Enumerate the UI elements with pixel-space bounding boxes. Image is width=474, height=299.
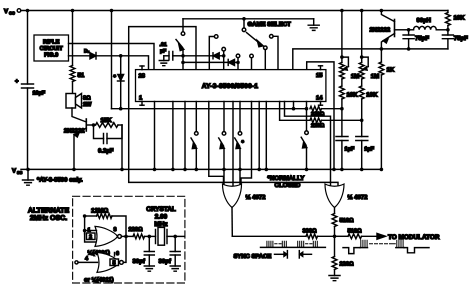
svg-text:14: 14 xyxy=(316,96,323,102)
wire funnel input 2 xyxy=(232,102,234,188)
wire emitter bottom xyxy=(381,48,448,50)
wire 15K node to Vss xyxy=(120,125,124,171)
svg-text:8Ω: 8Ω xyxy=(83,96,91,102)
switch SW-D xyxy=(301,102,308,172)
potentiometer 1M B xyxy=(359,11,379,81)
junction row1 pin xyxy=(222,54,226,70)
capacitor 75pF left xyxy=(403,30,429,51)
svg-text:510Ω: 510Ω xyxy=(340,218,354,224)
junction game select xyxy=(242,17,246,21)
svg-text:15K: 15K xyxy=(101,117,113,124)
wire funnel input 3 xyxy=(223,169,225,186)
text GAME SELECT xyxy=(248,21,292,28)
wire Vcc rail xyxy=(21,10,448,12)
pin 1 lead xyxy=(140,102,144,106)
wire 1M-A column xyxy=(340,99,344,137)
crystal Y1 xyxy=(149,227,177,245)
svg-text:FIG.9: FIG.9 xyxy=(44,53,58,59)
svg-text:*NORMALLY: *NORMALLY xyxy=(268,175,306,182)
svg-text:SYNC SPACE: SYNC SPACE xyxy=(234,253,272,260)
text or quarter 4011 xyxy=(84,277,114,284)
switch contact mid xyxy=(209,35,218,70)
svg-text:12MΩ: 12MΩ xyxy=(91,208,108,215)
svg-text:220Ω: 220Ω xyxy=(311,112,325,118)
svg-text:CLOSED: CLOSED xyxy=(275,182,301,189)
junction bus-switch xyxy=(305,107,309,111)
svg-text:28: 28 xyxy=(139,73,146,80)
node VSS label xyxy=(12,168,23,176)
resistor 220-1 xyxy=(310,106,342,117)
wire crystal out xyxy=(175,235,184,237)
switch contact row1 xyxy=(222,47,226,55)
wire rifle top output xyxy=(69,44,155,70)
svg-text:V: V xyxy=(4,8,8,15)
dimension arrows sync space xyxy=(275,251,312,258)
svg-text:D₁: D₁ xyxy=(84,49,90,55)
svg-text:TO MODULATOR: TO MODULATOR xyxy=(388,234,440,241)
svg-text:510Ω: 510Ω xyxy=(348,228,362,234)
svg-text:*AY-3-8500 only.: *AY-3-8500 only. xyxy=(37,176,83,183)
wire Q2 emitter to chip xyxy=(293,49,382,70)
IC U1 AY-3-8500 xyxy=(136,70,326,102)
svg-text:1K: 1K xyxy=(387,67,395,74)
diode row2 xyxy=(183,59,238,65)
resistor 10K B xyxy=(359,79,378,99)
wire pin to bus xyxy=(292,102,296,111)
ground game select xyxy=(308,19,319,31)
svg-text:or ¼(4011): or ¼(4011) xyxy=(84,277,114,284)
pin 14 lead xyxy=(319,102,323,106)
gate U3a 4001 NOR xyxy=(87,226,122,246)
block dashed alternate osc xyxy=(73,196,185,283)
diode D1 xyxy=(69,49,121,60)
svg-text:1M: 1M xyxy=(351,73,359,80)
diode row1 xyxy=(183,53,224,59)
ground sync xyxy=(329,276,340,281)
resistor 51 xyxy=(70,11,85,82)
text ALTERNATE 2MHz OSC xyxy=(28,207,70,222)
speaker 8ohm 2W xyxy=(66,82,92,109)
resistor 220 to ground xyxy=(332,236,354,275)
pin 15 lead xyxy=(319,66,323,70)
junction sync sum xyxy=(333,235,337,239)
wire OR1 output xyxy=(231,208,233,237)
svg-text:CRYSTAL: CRYSTAL xyxy=(146,206,176,213)
capacitor 10uF xyxy=(15,11,46,170)
capacitor 1uF A xyxy=(336,137,355,172)
svg-text:75pF: 75pF xyxy=(454,35,468,42)
svg-text:51: 51 xyxy=(78,72,85,79)
pin 28 lead xyxy=(140,66,144,70)
resistor 10K A xyxy=(340,79,359,99)
switch contact row2 xyxy=(236,54,240,62)
svg-text:4: 4 xyxy=(85,256,89,262)
wire funnel input 4 xyxy=(239,169,241,186)
svg-text:GAME SELECT: GAME SELECT xyxy=(248,21,292,28)
resistor 220 osc xyxy=(129,227,152,239)
text NORMALLY CLOSED xyxy=(268,175,306,189)
svg-text:µF: µF xyxy=(160,49,166,55)
waveform burst group2 xyxy=(298,241,318,247)
svg-text:2W: 2W xyxy=(83,102,92,108)
svg-text:V: V xyxy=(12,168,16,175)
wire pin L-wire OR2 xyxy=(285,102,331,187)
wire to modulator arrow xyxy=(362,233,440,241)
wire pin to Vss b xyxy=(171,102,175,172)
text AY-3-8500 only note xyxy=(37,176,83,183)
svg-text:2N2222: 2N2222 xyxy=(370,27,391,34)
svg-text:2: 2 xyxy=(89,235,92,241)
wire gate2 output loop xyxy=(123,236,126,262)
capacitor 1uF B xyxy=(356,137,375,172)
ground .01uF xyxy=(159,56,168,66)
switch contact alt xyxy=(270,35,279,70)
resistor 12M feedback xyxy=(83,208,126,237)
resistor 510 vertical xyxy=(332,208,354,237)
svg-text:10K: 10K xyxy=(366,92,378,99)
svg-text:CIRCUIT: CIRCUIT xyxy=(40,46,64,52)
svg-text:90µH: 90µH xyxy=(417,17,431,24)
svg-text:CC: CC xyxy=(9,11,15,16)
svg-text:30pf: 30pf xyxy=(159,258,172,265)
capacitor 0.2uF xyxy=(94,125,123,154)
resistor 220-2 xyxy=(310,118,362,129)
wire rifle bottom output to chip xyxy=(121,56,149,70)
capacitor 30pf left xyxy=(133,236,155,271)
junction row2 pin xyxy=(236,61,240,70)
junction Vcc-Q2-collector xyxy=(380,9,384,13)
wire 1M-B column xyxy=(360,99,364,137)
junction Vcc-drop xyxy=(110,9,114,13)
text CRYSTAL 2.00 MHz xyxy=(146,206,176,228)
waveform sync-space baseline xyxy=(261,246,326,248)
wire funnel input 1 xyxy=(209,102,224,186)
svg-text:SS: SS xyxy=(17,170,23,175)
svg-text:220Ω: 220Ω xyxy=(340,262,354,268)
svg-text:1M: 1M xyxy=(371,73,379,80)
wire pin to Vss e xyxy=(265,102,269,172)
gate U2a 4072 OR xyxy=(223,184,267,208)
svg-text:3: 3 xyxy=(114,227,117,233)
svg-text:1µF: 1µF xyxy=(345,147,355,153)
svg-text:+: + xyxy=(15,79,19,85)
wire Vss-left-ground xyxy=(23,168,34,186)
wire sub-chip bus xyxy=(112,107,307,111)
svg-text:10K: 10K xyxy=(347,92,359,99)
switch bank SW-A xyxy=(191,102,198,172)
resistor 1K xyxy=(379,49,395,171)
wire .01 column to chip xyxy=(182,62,184,69)
svg-text:220Ω: 220Ω xyxy=(129,227,143,233)
resistor 15K xyxy=(86,117,122,127)
svg-text:10K: 10K xyxy=(454,15,466,22)
svg-text:2.00: 2.00 xyxy=(155,214,168,221)
wire pin to Vss c xyxy=(183,102,187,172)
svg-text:1µF: 1µF xyxy=(364,147,374,153)
transistor Q2 2N2222 RF xyxy=(370,11,395,51)
wire game select line xyxy=(183,18,314,20)
text quarter 4001 xyxy=(88,250,110,257)
wire pin L-wire 220-2 xyxy=(280,102,310,121)
junction S1-line2 xyxy=(181,61,185,65)
capacitor .01uF xyxy=(160,42,184,60)
svg-text:220Ω: 220Ω xyxy=(311,123,325,129)
svg-text:75pF: 75pF xyxy=(415,35,429,42)
wire Vcc drop to bus xyxy=(111,11,113,109)
wire chip-top U loop xyxy=(307,62,336,171)
svg-text:AY-3-8500/8500-1: AY-3-8500/8500-1 xyxy=(202,83,259,90)
svg-text:*: * xyxy=(114,74,117,81)
svg-text:6: 6 xyxy=(116,251,119,257)
gate U2b 4072 OR xyxy=(325,184,368,208)
waveform composite video xyxy=(343,240,429,253)
wire gate1 inputs xyxy=(83,229,97,242)
svg-text:2MHz OSC.: 2MHz OSC. xyxy=(30,215,67,222)
junction Vcc-1M-B xyxy=(360,9,364,13)
waveform burst group1 xyxy=(267,241,286,247)
junction Vcc-51 xyxy=(71,9,75,13)
inductor 90uH xyxy=(409,17,450,31)
wire pin to Vss d xyxy=(257,102,261,172)
resistor 10K top-right xyxy=(446,11,466,30)
svg-text:10µF: 10µF xyxy=(33,91,46,97)
svg-text:½ 4072: ½ 4072 xyxy=(348,194,369,201)
switch contact open pin xyxy=(250,54,254,69)
svg-text:330Ω: 330Ω xyxy=(303,228,317,234)
wire Q2 base xyxy=(395,28,411,32)
wire left feedback loop xyxy=(129,27,338,187)
wire OR1 to 330 xyxy=(232,235,306,237)
resistor 330 xyxy=(303,228,335,238)
transistor Q1 2N2222 audio xyxy=(64,108,86,171)
svg-text:15: 15 xyxy=(316,73,323,79)
gate U3b 4001 NOR xyxy=(97,251,123,272)
switch S1 .01 select xyxy=(176,19,185,63)
switch bank SW-C normally closed xyxy=(235,102,245,172)
junction S1-line1 xyxy=(181,54,185,58)
block RIFLE CIRCUIT FIG.9 xyxy=(34,35,69,61)
switch bank SW-B xyxy=(219,102,226,172)
wire gate2 input xyxy=(75,256,98,264)
wire Vss rail xyxy=(21,168,382,170)
capacitor 75pF right xyxy=(442,30,468,49)
junction Vcc-1M-A xyxy=(340,9,344,13)
svg-text:5: 5 xyxy=(113,261,116,267)
wire gate1 output xyxy=(121,235,133,239)
capacitor 30pf right xyxy=(159,236,181,271)
junction Vcc-10uF xyxy=(26,9,30,13)
diode D2 vertical xyxy=(114,56,125,109)
svg-text:2N2222: 2N2222 xyxy=(64,128,85,135)
node VCC terminal xyxy=(4,8,21,16)
svg-text:RIFLE: RIFLE xyxy=(43,40,60,46)
svg-text:ALTERNATE: ALTERNATE xyxy=(28,207,70,214)
wire pin to Vss a xyxy=(153,102,157,172)
svg-text:.01: .01 xyxy=(160,42,167,48)
svg-text:30pf: 30pf xyxy=(133,258,146,265)
switch S2 game select xyxy=(242,19,267,70)
wire funnel input 5 xyxy=(241,102,252,186)
potentiometer 1M A xyxy=(340,11,360,81)
junction rifle-D2 xyxy=(119,54,123,58)
svg-text:0.2µF: 0.2µF xyxy=(98,147,114,154)
svg-text:½ 4072: ½ 4072 xyxy=(246,194,267,201)
resistor 510 horizontal xyxy=(335,228,362,238)
text SYNC SPACE xyxy=(234,253,272,260)
svg-text:*: * xyxy=(242,140,245,147)
